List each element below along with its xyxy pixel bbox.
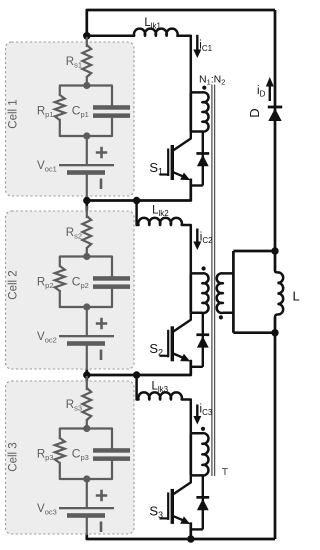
- transistor S3 (IGBT): [160, 475, 191, 524]
- battery plus sign: [96, 318, 107, 329]
- wire cell top lead: [86, 377, 88, 389]
- cell 3 box: [6, 381, 135, 534]
- wire: [86, 136, 88, 164]
- inductor Llk3: [137, 375, 191, 433]
- svg-text:Cell 2: Cell 2: [8, 270, 20, 299]
- wire diode bottom: [191, 366, 203, 368]
- node B2 branch: [133, 371, 140, 378]
- svg-text:Llk3: Llk3: [151, 380, 168, 394]
- svg-text:D: D: [247, 108, 262, 117]
- transformer secondary winding: [217, 251, 234, 333]
- svg-text:N1:N2: N1:N2: [199, 74, 225, 87]
- node stack top / cell1 +: [83, 32, 91, 40]
- wire: [86, 420, 88, 429]
- inductor L: [275, 271, 283, 318]
- node B (cell2/cell3): [83, 371, 90, 378]
- svg-text:L: L: [293, 289, 300, 304]
- wire RC top: [60, 429, 112, 449]
- svg-text:Llk2: Llk2: [152, 205, 169, 219]
- wire: [86, 248, 88, 257]
- wire: [86, 77, 88, 86]
- node S3 emitter / bottom rail: [187, 535, 194, 542]
- wire: [86, 307, 88, 335]
- wire cell top lead: [86, 38, 88, 46]
- wire cell2-cell3: [85, 369, 88, 381]
- svg-text:iC1: iC1: [199, 40, 212, 54]
- resistor Rs2: [82, 216, 91, 248]
- node cell2 RC top: [83, 253, 90, 260]
- resistor Rp3: [55, 438, 65, 463]
- battery plus sign: [96, 490, 107, 501]
- svg-text:S2: S2: [149, 341, 163, 358]
- wire emitter return: [137, 180, 191, 201]
- battery Voc1: [59, 164, 114, 175]
- node cell3 RC top: [83, 425, 90, 432]
- capacitor Cp1: [93, 105, 130, 118]
- wire RC bottom: [60, 289, 112, 307]
- inductor Llk1: [87, 29, 191, 93]
- polarity dot winding 1: [202, 86, 206, 90]
- node cell1 RC bottom: [83, 132, 90, 139]
- wire row2: [87, 199, 137, 202]
- battery Voc2: [59, 335, 114, 346]
- node cell1 RC top: [83, 82, 90, 89]
- wire row3: [87, 374, 137, 377]
- node cell2 RC bottom: [83, 303, 90, 310]
- wire: [86, 479, 88, 507]
- node output bottom: [271, 329, 278, 336]
- transistor S1 (IGBT): [160, 132, 191, 181]
- diode D: [268, 106, 282, 121]
- wire diode bottom: [191, 184, 203, 186]
- cell 1 box: [6, 42, 135, 196]
- battery Voc3: [59, 507, 114, 518]
- wire right rail: [274, 10, 277, 539]
- svg-text:T: T: [222, 466, 229, 478]
- wire bottom rail: [87, 534, 275, 539]
- transformer primary winding 2: [191, 273, 209, 313]
- current arrow ic2: [193, 229, 201, 251]
- wire secondary to rail bottom: [233, 331, 275, 334]
- inductor Llk2: [137, 201, 191, 274]
- resistor Rp2: [55, 266, 65, 291]
- wire cell top lead: [86, 207, 88, 217]
- node A2 branch: [133, 197, 140, 204]
- current arrow ic3: [193, 405, 201, 425]
- transformer core T: [212, 85, 215, 477]
- wire diode bottom: [191, 528, 203, 530]
- node output top: [271, 247, 278, 254]
- battery minus sign: [100, 522, 103, 533]
- wire: [86, 346, 88, 369]
- svg-text:Cell 1: Cell 1: [8, 99, 20, 128]
- polarity dot secondary: [219, 315, 223, 319]
- battery minus sign: [100, 179, 103, 190]
- wire secondary to rail top: [233, 250, 275, 253]
- transformer primary winding 3: [191, 433, 209, 475]
- capacitor Cp3: [93, 448, 130, 461]
- svg-text:S1: S1: [149, 160, 163, 177]
- cell 2 box: [6, 211, 135, 369]
- current arrow iD: [266, 77, 274, 101]
- resistor Rs3: [82, 388, 91, 420]
- battery plus sign: [96, 147, 107, 158]
- wire: [86, 518, 88, 534]
- wire cell1-cell2: [85, 196, 88, 211]
- polarity dot winding 2: [202, 266, 206, 270]
- polarity dot winding 3: [201, 427, 205, 431]
- resistor Rp1: [55, 95, 65, 120]
- svg-text:iC3: iC3: [200, 404, 213, 418]
- node cell3 RC bottom: [83, 475, 90, 482]
- transistor S2 (IGBT): [160, 313, 191, 362]
- wire RC bottom: [60, 461, 112, 479]
- current arrow ic1: [193, 35, 201, 58]
- svg-text:Llk1: Llk1: [144, 17, 161, 31]
- diode of S2: [196, 313, 209, 367]
- svg-text:iC2: iC2: [200, 232, 213, 246]
- diode of S3: [196, 475, 209, 529]
- capacitor Cp2: [93, 276, 130, 289]
- svg-text:S3: S3: [149, 504, 163, 521]
- wire: [86, 175, 88, 196]
- node A (cell1/cell2): [83, 197, 90, 204]
- svg-text:Cell 3: Cell 3: [8, 442, 20, 471]
- wire RC bottom: [60, 118, 112, 136]
- wire emitter return: [137, 361, 191, 375]
- svg-text:iD: iD: [257, 85, 266, 99]
- wire emitter: [189, 524, 192, 539]
- wire top rail: [87, 10, 275, 36]
- wire RC top: [60, 257, 112, 277]
- transformer primary winding 1: [191, 92, 209, 131]
- diode of S1: [196, 132, 209, 186]
- wire RC top: [60, 86, 112, 106]
- battery minus sign: [100, 350, 103, 361]
- resistor Rs1: [82, 45, 91, 77]
